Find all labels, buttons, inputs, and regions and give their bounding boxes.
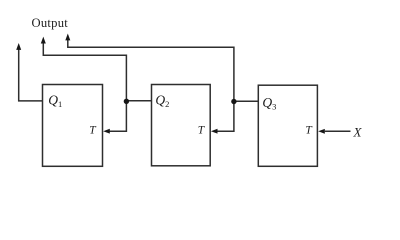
node A junction dot <box>124 99 129 104</box>
wire Q1 output to left riser <box>19 49 43 101</box>
svg-text:T: T <box>305 125 313 137</box>
flip-flop U2 box <box>152 85 211 166</box>
node B junction dot <box>231 99 236 104</box>
wire Q3 output net: riser, long top run, drop to node B, T2 feed <box>68 39 234 131</box>
arrowhead output Q1 (up) <box>16 43 21 50</box>
svg-text:Q3: Q3 <box>262 95 276 112</box>
svg-text:Q2: Q2 <box>155 92 169 109</box>
svg-text:T: T <box>198 124 206 136</box>
wire X input <box>325 130 351 132</box>
svg-text:Output: Output <box>32 16 69 30</box>
svg-text:Q1: Q1 <box>48 93 62 110</box>
wire node B to Q3 input <box>234 100 258 102</box>
arrowhead T input Q2 (left) <box>211 129 218 134</box>
arrowhead T input Q3 (left) <box>318 129 325 134</box>
arrowhead output Q3 (up) <box>65 34 70 41</box>
svg-text:T: T <box>89 124 97 136</box>
svg-text:X: X <box>353 124 363 139</box>
arrowhead output Q2 (up) <box>41 37 46 44</box>
flip-flop U1 box <box>43 85 103 167</box>
arrowhead T input Q1 (left) <box>103 129 110 134</box>
wire Q2 output net: riser, top run, drop to node A, T1 feed <box>43 42 126 131</box>
wire node A to Q2 input <box>126 100 151 102</box>
flip-flop U3 box <box>258 85 317 166</box>
